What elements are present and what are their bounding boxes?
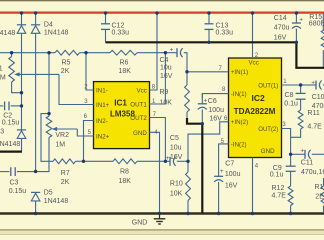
label C13 value — [216, 30, 234, 37]
wire IC2 Vcc to rail — [252, 13, 254, 58]
label C12 — [112, 23, 125, 30]
svg-text:C3: C3 — [10, 180, 19, 187]
capacitor C13 — [205, 13, 214, 42]
label C4 plus — [170, 47, 174, 54]
svg-text:+: + — [203, 98, 207, 105]
svg-text:C7: C7 — [225, 161, 234, 168]
svg-text:100u: 100u — [208, 107, 224, 114]
label C6 value — [208, 107, 224, 123]
resistor R15 — [321, 13, 324, 68]
svg-text:4.7E: 4.7E — [307, 124, 322, 131]
svg-text:+: + — [311, 80, 315, 87]
svg-text:R10: R10 — [170, 181, 183, 188]
label VR2 value — [55, 141, 65, 148]
resistor R9 — [185, 72, 190, 119]
capacitor C9 — [286, 154, 296, 186]
svg-text:D3: D3 — [0, 129, 4, 136]
label C9 value — [270, 172, 284, 179]
label R15 — [309, 14, 322, 21]
svg-text:18K: 18K — [119, 178, 132, 185]
capacitor C7 — [214, 176, 223, 213]
label D4 — [44, 22, 53, 29]
label D4 value — [44, 30, 69, 37]
svg-text:470u,16V: 470u,16V — [301, 169, 324, 176]
page edge bottom — [0, 229, 324, 235]
label GND — [132, 220, 148, 227]
wire OUT2 node — [282, 129, 291, 155]
svg-text:0.33u: 0.33u — [112, 30, 130, 37]
svg-text:+: + — [220, 168, 224, 175]
svg-text:1N4148: 1N4148 — [44, 30, 69, 37]
resistor R10 — [186, 161, 191, 213]
label C10 — [312, 94, 324, 101]
svg-text:C13: C13 — [216, 23, 229, 30]
svg-text:+: + — [299, 17, 303, 24]
svg-text:OUT(1): OUT(1) — [258, 83, 278, 89]
op-amp IC1 box — [94, 82, 150, 149]
label C11 value — [301, 169, 324, 176]
label D3 — [0, 129, 4, 136]
label C7 value — [225, 171, 241, 189]
svg-text:+: + — [300, 148, 304, 155]
label R11 value — [307, 124, 322, 131]
label R6 — [120, 60, 129, 67]
capacitor C5 — [165, 157, 188, 166]
page edge top — [0, 0, 324, 2]
label C9 — [273, 165, 282, 172]
svg-text:0.1u: 0.1u — [270, 172, 284, 179]
capacitor C12 — [101, 13, 110, 42]
label C4 — [160, 57, 169, 64]
wire IC1 pin7 OUT2 down — [150, 118, 166, 162]
svg-text:GND: GND — [132, 220, 148, 227]
label VR1 value — [0, 74, 6, 81]
label C6 plus — [203, 98, 207, 105]
svg-text:C2: C2 — [3, 113, 12, 120]
wire IC2 pin8 to C6 — [202, 94, 228, 98]
svg-text:D4: D4 — [44, 22, 53, 29]
capacitor C10 — [301, 81, 324, 90]
svg-text:R7: R7 — [61, 170, 70, 177]
VR2 wiper arrow — [52, 127, 78, 131]
svg-text:IN1-: IN1- — [96, 87, 108, 94]
label R7 — [61, 170, 70, 177]
svg-text:10u: 10u — [170, 144, 182, 151]
label C7 — [225, 161, 234, 168]
svg-text:16V: 16V — [225, 182, 238, 189]
svg-text:TDA2822M: TDA2822M — [234, 107, 276, 116]
svg-text:-IN(2): -IN(2) — [231, 141, 247, 148]
label R13 — [315, 184, 324, 191]
label C10 value — [312, 103, 324, 110]
svg-text:2K: 2K — [61, 68, 70, 75]
ground bus — [0, 212, 324, 215]
label R10 value — [170, 191, 183, 198]
label VR2 — [55, 132, 69, 139]
svg-text:GND: GND — [261, 148, 275, 155]
label C14 plus — [299, 17, 303, 24]
label C7 plus — [220, 168, 224, 175]
svg-text:2E: 2E — [315, 194, 324, 201]
IC2 pin numbers — [219, 53, 288, 170]
label VR1 — [0, 66, 3, 73]
label C5 value — [170, 144, 183, 161]
svg-text:C11: C11 — [301, 160, 313, 167]
label R5 — [62, 60, 71, 67]
svg-text:1M: 1M — [0, 74, 6, 81]
svg-text:-IN(1): -IN(1) — [231, 91, 247, 98]
capacitor C4 — [165, 48, 187, 72]
svg-text:100u: 100u — [225, 171, 241, 178]
wire IC2 pin4 to ground — [252, 158, 254, 214]
wire IC1 pin5 to VR2 wiper — [77, 129, 93, 136]
svg-text:OUT2: OUT2 — [130, 115, 147, 122]
svg-text:R5: R5 — [62, 60, 71, 67]
wire R5 left to VR2 top — [48, 53, 50, 114]
wire IC1 pin1 OUT1 to node A — [150, 53, 166, 104]
label R13 value — [315, 194, 324, 201]
IC2 pin names — [231, 60, 278, 156]
label R8 value — [119, 178, 132, 185]
resistor R11 — [291, 110, 303, 137]
diode D4 — [31, 25, 40, 34]
svg-text:GND: GND — [133, 130, 147, 137]
svg-text:R8: R8 — [120, 169, 129, 176]
capacitor C11 — [291, 150, 324, 159]
IC2 name — [234, 93, 276, 116]
svg-text:1N4148: 1N4148 — [0, 30, 15, 37]
capacitor C2 — [0, 102, 22, 111]
IC1 pin names left — [96, 87, 110, 140]
svg-text:16V: 16V — [160, 73, 173, 80]
label R15 value — [309, 20, 324, 27]
label R12 — [272, 185, 285, 192]
capacitor C6 — [198, 94, 207, 124]
label C11 plus — [300, 148, 304, 155]
svg-text:2K: 2K — [61, 179, 70, 186]
svg-text:0.33u: 0.33u — [216, 30, 234, 37]
svg-text:10u: 10u — [160, 65, 172, 72]
label R9 — [160, 89, 169, 96]
label R12 value — [272, 193, 287, 200]
wire IC2 pin6 to C5/R10 node — [188, 122, 229, 162]
capacitor C14 — [292, 13, 301, 42]
resistor R6 — [86, 50, 165, 55]
svg-text:IC1: IC1 — [114, 98, 127, 107]
wire IC2 pin5 to C7 — [219, 144, 229, 176]
label R6 value — [119, 68, 132, 75]
diode D4 feed wire — [35, 13, 37, 25]
label C5 — [170, 135, 179, 142]
svg-text:0.15u: 0.15u — [9, 188, 27, 195]
capacitor C3 — [0, 167, 36, 176]
label C2 value — [2, 120, 20, 127]
label C12 value — [112, 30, 130, 37]
label C8 — [285, 92, 294, 99]
svg-text:16V: 16V — [274, 34, 287, 41]
potentiometer VR1 — [9, 53, 22, 93]
svg-text:R11: R11 — [307, 110, 319, 117]
svg-text:C8: C8 — [285, 92, 294, 99]
VR1 wiper arrow — [14, 72, 59, 76]
wire bias rail y52.7 — [0, 52, 55, 54]
diode D2 — [17, 25, 26, 34]
label C13 — [216, 23, 229, 30]
svg-text:C4: C4 — [160, 57, 169, 64]
wire OUT1 node — [282, 84, 301, 86]
IC1 name — [110, 98, 135, 118]
label C11 — [301, 160, 313, 167]
wire IC1 pin2 to R5/R6 node — [86, 53, 94, 90]
svg-text:OUT1: OUT1 — [130, 101, 147, 108]
resistor R5 — [55, 50, 86, 55]
label C14 — [274, 15, 287, 22]
black wire D3 to left edge — [0, 151, 22, 153]
+V supply rail — [0, 11, 324, 13]
label C10 plus — [311, 80, 315, 87]
resistor R7 — [53, 159, 84, 164]
svg-text:Vcc: Vcc — [249, 60, 259, 67]
label C4 value — [160, 65, 173, 80]
resistor R12 — [288, 186, 293, 213]
svg-text:R6: R6 — [120, 60, 129, 67]
svg-text:0.1u: 0.1u — [284, 101, 298, 108]
svg-text:IC2: IC2 — [252, 93, 266, 103]
label C3 — [10, 180, 19, 187]
IC1 pin names right — [130, 87, 147, 136]
svg-text:IN1+: IN1+ — [96, 102, 110, 109]
svg-text:VR1: VR1 — [0, 66, 3, 73]
svg-text:VR2: VR2 — [55, 132, 69, 139]
svg-text:R9: R9 — [160, 89, 169, 96]
svg-text:680E: 680E — [309, 20, 324, 27]
wire IC1 pin3 to VR1 wiper — [59, 74, 94, 104]
label R8 — [120, 169, 129, 176]
svg-text:IN2-: IN2- — [96, 118, 108, 125]
svg-text:+: + — [170, 47, 174, 54]
svg-text:10K: 10K — [170, 191, 183, 198]
label C8 value — [284, 101, 298, 108]
wire IC1 pin4 to ground — [150, 132, 160, 213]
wire VR2 top to R7 — [41, 114, 53, 162]
svg-text:1N4148: 1N4148 — [44, 198, 69, 205]
svg-text:1N4148: 1N4148 — [0, 141, 20, 148]
svg-text:1M: 1M — [55, 141, 65, 148]
svg-text:Vcc: Vcc — [136, 87, 146, 94]
wire D4 down to C3 node — [35, 33, 37, 171]
audio amp IC2 box — [229, 58, 282, 158]
potentiometer VR2 — [36, 114, 52, 172]
diode D5 — [31, 192, 40, 201]
svg-text:4.7E: 4.7E — [272, 193, 287, 200]
wire IC1 pin8 Vcc to rail — [150, 13, 158, 90]
label C3 value — [9, 188, 27, 195]
IC1 pin numbers — [84, 84, 159, 135]
svg-text:C10: C10 — [312, 94, 324, 101]
label R9 value — [160, 99, 173, 106]
label D5 value — [44, 198, 69, 205]
svg-text:+IN(2): +IN(2) — [231, 119, 248, 126]
label D5 — [44, 189, 53, 196]
svg-text:470u: 470u — [274, 25, 290, 32]
resistor R8 — [84, 159, 166, 164]
label R11 — [307, 110, 319, 117]
wire D2 cathode down — [21, 33, 23, 129]
svg-text:10K: 10K — [160, 99, 173, 106]
diode D3 — [17, 130, 26, 139]
svg-text:470u,16V: 470u,16V — [312, 103, 324, 110]
black wire R9 and C6 to ground bus — [187, 118, 202, 213]
svg-text:OUT(2): OUT(2) — [258, 127, 278, 133]
wire IC1 pin6 to R7/R8 node — [84, 121, 94, 162]
svg-text:C5: C5 — [170, 135, 179, 142]
ground symbol — [154, 215, 166, 224]
svg-text:C14: C14 — [274, 15, 287, 22]
svg-text:C6: C6 — [208, 98, 217, 105]
label C2 — [3, 113, 12, 120]
svg-text:16V: 16V — [170, 154, 183, 161]
svg-text:18K: 18K — [119, 68, 132, 75]
svg-text:R12: R12 — [272, 185, 285, 192]
svg-text:0.15u: 0.15u — [2, 120, 20, 127]
label C6 — [208, 98, 217, 105]
label D3 value — [0, 141, 20, 148]
black bus from C12 to right edge — [106, 42, 324, 68]
label R10 — [170, 181, 183, 188]
label C5 plus — [166, 155, 170, 162]
wire D3 to black wire — [21, 138, 23, 151]
diode D2 feed wire — [21, 13, 23, 25]
svg-text:D5: D5 — [44, 189, 53, 196]
wire D5 to ground — [35, 201, 37, 214]
svg-text:R13: R13 — [315, 184, 324, 191]
svg-text:+IN(1): +IN(1) — [231, 69, 248, 76]
label C14 value — [274, 25, 290, 42]
resistor R13 (cut at edge) — [321, 178, 324, 213]
label D2 value — [0, 30, 15, 37]
label R7 value — [61, 179, 70, 186]
svg-text:C12: C12 — [112, 23, 125, 30]
capacitor C8 — [296, 85, 306, 110]
svg-text:IN2+: IN2+ — [96, 133, 110, 140]
wire IC2 pin7 input — [187, 71, 229, 73]
label R5 value — [61, 68, 70, 75]
